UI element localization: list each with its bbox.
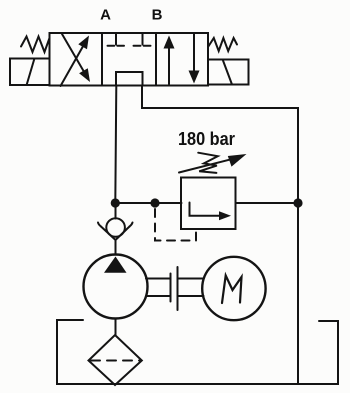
svg-text:A: A [100, 7, 111, 24]
pilot line dashed [155, 209, 196, 241]
directional valve body V1 [50, 33, 209, 86]
motor letter M [222, 276, 242, 304]
check valve ball [106, 218, 125, 237]
check valve seat [98, 223, 133, 241]
valve position 3 parallel-flow arrows [164, 34, 200, 84]
relief valve adjustment arrow [179, 154, 247, 173]
svg-text:180 bar: 180 bar [178, 128, 235, 149]
wire relief valve outlet [237, 202, 299, 204]
pump P1 circle [84, 255, 148, 319]
relief valve internal flow arrow [190, 203, 232, 221]
relief valve body [181, 178, 236, 230]
return spring right [208, 38, 237, 51]
wire T return line valve to tank [142, 86, 298, 385]
tank reservoir [57, 320, 338, 384]
solenoid Y1 (left) [10, 59, 50, 86]
svg-text:B: B [152, 7, 163, 24]
filter element dashed line [91, 360, 140, 362]
shaft coupling pump to motor [146, 267, 204, 310]
wire dot to check valve [115, 203, 117, 219]
return spring left [21, 37, 50, 53]
motor M1 circle [202, 257, 265, 320]
solenoid Y2 (right) [208, 60, 249, 85]
valve position 1 crossed-flow arrows [61, 34, 91, 86]
wire check valve to pump [115, 240, 117, 255]
wire P line valve to pump [115, 86, 116, 204]
filter F1 diamond [89, 335, 142, 385]
valve position 2 blocked port T symbols [108, 33, 151, 46]
junction dot pilot branch [150, 198, 159, 207]
pump flow direction triangle [104, 257, 127, 273]
wire pump suction to filter [115, 319, 117, 336]
wire relief branch horizontal [115, 202, 181, 204]
junction dot on return line [293, 198, 302, 207]
valve position 2 P-T bypass loop [116, 72, 143, 86]
junction dot on P line [111, 198, 120, 207]
relief valve adjustment spring [198, 153, 218, 173]
